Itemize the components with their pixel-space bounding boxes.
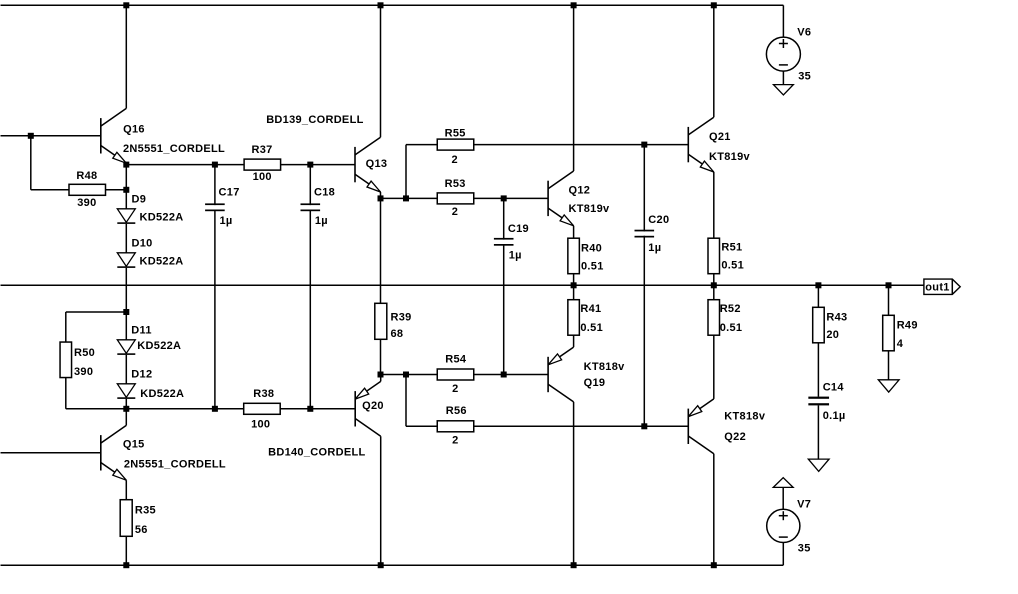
svg-text:R56: R56 [446, 405, 467, 417]
svg-text:KD522A: KD522A [140, 256, 184, 268]
svg-text:KT819v: KT819v [569, 203, 611, 215]
svg-text:R38: R38 [253, 388, 274, 400]
svg-text:R43: R43 [826, 311, 847, 323]
svg-text:R41: R41 [580, 303, 601, 315]
svg-text:Q13: Q13 [366, 158, 388, 170]
svg-text:Q20: Q20 [362, 400, 384, 412]
svg-text:20: 20 [826, 329, 839, 341]
svg-text:100: 100 [253, 171, 272, 183]
svg-text:R52: R52 [720, 303, 741, 315]
svg-text:2: 2 [452, 206, 458, 218]
svg-text:Q12: Q12 [569, 185, 591, 197]
svg-text:2: 2 [451, 154, 457, 166]
svg-text:V6: V6 [797, 27, 811, 39]
svg-text:C18: C18 [314, 186, 335, 198]
svg-text:D12: D12 [131, 369, 152, 381]
svg-text:4: 4 [897, 338, 904, 350]
svg-text:C19: C19 [508, 223, 529, 235]
svg-text:0.51: 0.51 [580, 322, 603, 334]
svg-text:R51: R51 [721, 241, 742, 253]
svg-text:out1: out1 [925, 281, 949, 293]
svg-text:R53: R53 [445, 178, 466, 190]
svg-text:390: 390 [74, 366, 93, 378]
svg-text:KD522A: KD522A [140, 388, 184, 400]
svg-text:C14: C14 [823, 382, 845, 394]
svg-text:1µ: 1µ [509, 249, 522, 261]
svg-text:C20: C20 [648, 214, 669, 226]
svg-text:BD140_CORDELL: BD140_CORDELL [268, 447, 365, 459]
svg-text:BD139_CORDELL: BD139_CORDELL [266, 114, 363, 126]
svg-text:R54: R54 [445, 354, 467, 366]
svg-text:1µ: 1µ [648, 242, 661, 254]
svg-text:R40: R40 [581, 243, 602, 255]
svg-text:Q15: Q15 [123, 438, 145, 450]
svg-text:R37: R37 [251, 144, 272, 156]
svg-text:35: 35 [798, 71, 811, 83]
svg-text:68: 68 [391, 328, 404, 340]
svg-text:KD522A: KD522A [137, 340, 181, 352]
svg-text:2: 2 [452, 435, 458, 447]
svg-text:R55: R55 [445, 128, 466, 140]
svg-text:R48: R48 [76, 170, 97, 182]
svg-text:0.51: 0.51 [581, 260, 604, 272]
svg-text:D9: D9 [132, 193, 147, 205]
svg-text:R35: R35 [135, 505, 156, 517]
svg-text:C17: C17 [219, 186, 240, 198]
svg-text:D10: D10 [132, 237, 153, 249]
svg-text:0.51: 0.51 [720, 322, 743, 334]
svg-text:0.51: 0.51 [721, 260, 744, 272]
svg-text:2: 2 [452, 383, 458, 395]
svg-text:D11: D11 [131, 325, 151, 337]
svg-text:KD522A: KD522A [140, 212, 184, 224]
svg-text:R49: R49 [897, 320, 918, 332]
svg-text:1µ: 1µ [315, 215, 328, 227]
svg-text:Q21: Q21 [709, 131, 731, 143]
svg-text:KT819v: KT819v [709, 151, 751, 163]
svg-text:V7: V7 [797, 498, 811, 510]
svg-text:56: 56 [135, 524, 148, 536]
svg-text:KT818v: KT818v [724, 411, 766, 423]
svg-text:2N5551_CORDELL: 2N5551_CORDELL [124, 458, 226, 470]
svg-text:KT818v: KT818v [584, 361, 626, 373]
svg-text:Q16: Q16 [123, 123, 145, 135]
svg-text:100: 100 [251, 419, 270, 431]
svg-text:0.1µ: 0.1µ [823, 410, 846, 422]
svg-text:1µ: 1µ [220, 215, 233, 227]
svg-text:Q19: Q19 [584, 377, 606, 389]
svg-text:35: 35 [798, 543, 811, 555]
svg-text:390: 390 [77, 197, 96, 209]
svg-text:Q22: Q22 [724, 431, 746, 443]
svg-text:R39: R39 [391, 312, 412, 324]
svg-text:2N5551_CORDELL: 2N5551_CORDELL [123, 143, 225, 155]
svg-text:R50: R50 [74, 347, 95, 359]
